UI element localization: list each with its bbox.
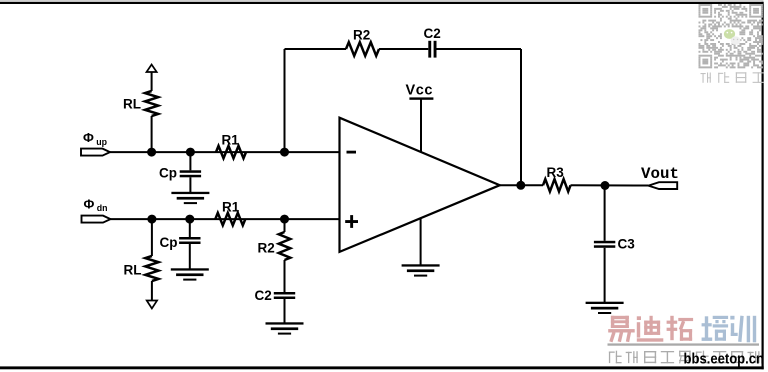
ground for op-amp	[402, 264, 440, 276]
wire Cp-dn bottom	[189, 244, 191, 269]
svg-text:C2: C2	[424, 26, 441, 41]
wire Cp-dn top	[189, 219, 191, 237]
power Vcc T-bar	[409, 97, 433, 99]
wire C3 bottom	[604, 248, 606, 302]
resistor R2 (lower)	[279, 232, 291, 260]
resistor RL (upper)	[145, 91, 158, 116]
capacitor C2 feedback plates	[428, 41, 436, 58]
label PHI_up	[83, 130, 108, 147]
resistor R3	[543, 179, 571, 191]
watermark tagline (gray CJK)	[609, 351, 622, 364]
wire feedback right vertical	[520, 49, 522, 185]
wire R3 to Vout	[571, 184, 649, 186]
node up/RL junction	[147, 148, 156, 157]
wire feedback middle	[379, 48, 428, 50]
wire dn-row horizontal	[111, 218, 340, 220]
wire feedback top right	[437, 48, 522, 50]
wire C3 top	[604, 186, 606, 241]
frame right border	[762, 2, 764, 370]
wire Cp-up bottom	[189, 177, 191, 192]
svg-text:Vcc: Vcc	[406, 83, 434, 99]
node R3/C3 junction	[601, 181, 610, 190]
node dn/Cp junction	[185, 215, 194, 224]
wire R2-C2 dn	[284, 260, 286, 292]
svg-text:up: up	[96, 137, 107, 147]
node dn/R2 junction	[280, 215, 289, 224]
wire Cp-up top	[189, 152, 191, 170]
ground for Cp upper	[171, 192, 209, 204]
svg-text:dn: dn	[97, 203, 108, 213]
svg-text:RL: RL	[124, 263, 142, 278]
svg-text:C3: C3	[618, 236, 636, 251]
op-amp minus sign	[347, 151, 357, 154]
wire feedback left vertical	[284, 49, 286, 152]
arrow down (RL return)	[147, 301, 157, 309]
frame top gray hairline	[0, 0, 764, 1]
op-amp U1	[340, 118, 500, 252]
wire Vcc drop	[420, 99, 422, 152]
wire R2-dn top	[284, 219, 286, 232]
arrow up (RL supply)	[147, 65, 157, 73]
wire feedback top left	[285, 48, 347, 50]
node dn/RL junction	[147, 215, 156, 224]
terminal PHI_dn input	[82, 216, 111, 223]
wire C2-dn bottom	[284, 299, 286, 323]
svg-text:R2: R2	[353, 28, 370, 43]
resistor R2 (feedback)	[346, 42, 379, 56]
ground for Cp lower	[171, 268, 209, 280]
svg-text:RL: RL	[123, 97, 141, 112]
svg-text:R1: R1	[222, 132, 240, 147]
terminal PHI_up input	[81, 149, 110, 156]
wire RL-up top	[151, 72, 153, 91]
label PHI_dn	[84, 197, 108, 213]
watermark logo yiditu (pink)	[608, 316, 635, 333]
svg-text:Vout: Vout	[641, 165, 679, 183]
capacitor Cp upper plates	[180, 170, 201, 177]
svg-text:Φ: Φ	[83, 130, 94, 145]
wire RL-up bottom	[151, 116, 153, 152]
frame top border	[0, 2, 764, 4]
ground for C2 lower	[266, 322, 304, 334]
svg-text:bbs.eetop.cn: bbs.eetop.cn	[684, 351, 765, 367]
resistor RL (lower)	[145, 256, 158, 281]
wire up-row horizontal	[110, 151, 340, 153]
wire RL-dn bottom	[151, 281, 153, 300]
node up/feedback junction	[280, 148, 289, 157]
QR code (wechat contact)	[699, 4, 763, 68]
capacitor Cp lower plates	[179, 237, 200, 244]
svg-text:R2: R2	[258, 241, 275, 256]
svg-text:R3: R3	[547, 165, 565, 180]
svg-text:Cp: Cp	[159, 166, 177, 181]
resistor R1 (upper)	[216, 146, 246, 158]
wire op-amp ground drop	[420, 218, 422, 264]
node up/Cp junction	[186, 148, 195, 157]
frame bottom border	[0, 366, 764, 369]
ground for C3	[586, 302, 624, 314]
wire RL-dn top	[151, 219, 153, 256]
wechat icon in QR center	[724, 29, 741, 45]
node output/feedback junction	[516, 181, 525, 190]
svg-text:R1: R1	[222, 199, 240, 214]
label weixin-lianxi (gray CJK under QR)	[701, 73, 711, 83]
resistor R1 (lower)	[215, 213, 245, 225]
watermark underline	[608, 343, 760, 345]
op-amp plus sign	[345, 215, 358, 228]
terminal Vout	[648, 182, 677, 189]
capacitor C3 plates	[594, 241, 615, 248]
capacitor C2 lower plates	[274, 292, 295, 299]
wire output	[500, 184, 543, 186]
watermark logo peixun (blue)	[702, 316, 729, 341]
svg-text:C2: C2	[255, 288, 272, 303]
svg-text:Φ: Φ	[84, 197, 95, 212]
svg-text:Cp: Cp	[160, 235, 178, 250]
